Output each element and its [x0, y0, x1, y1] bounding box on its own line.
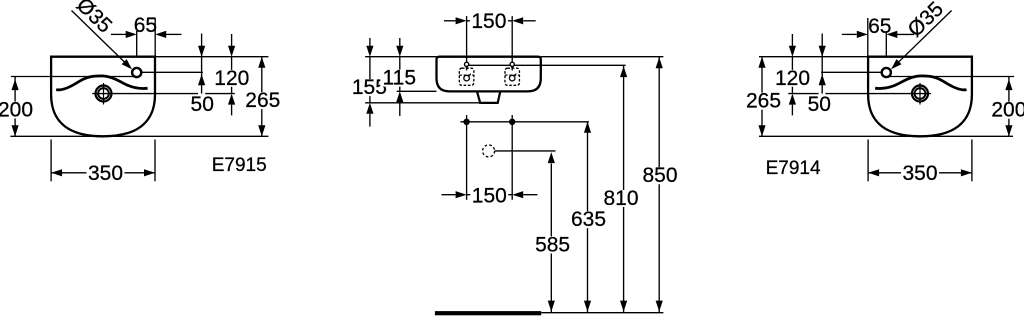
dashed fixing box left [459, 68, 474, 85]
tap hole circle (E7914) [882, 68, 891, 77]
svg-text:350: 350 [902, 162, 937, 185]
tap hole reference line (right drawing) [821, 71, 886, 73]
dimension 50 (E7914) [808, 34, 831, 116]
drain inner circle (E7914) [915, 88, 926, 99]
bottle trap outline [477, 91, 500, 103]
drain reference line left part (E7914) [788, 93, 818, 95]
dimension 850 [641, 57, 679, 313]
drain outer circle (E7914) [912, 86, 928, 102]
fixing keyhole circle left [465, 62, 469, 66]
dimension 65 (E7914) [842, 15, 914, 57]
dimension 265 (E7915) [244, 57, 282, 137]
dimension 120 (E7915) [213, 34, 251, 115]
svg-text:E7915: E7915 [212, 155, 267, 176]
model label E7915 [212, 155, 267, 176]
svg-text:50: 50 [191, 93, 214, 116]
svg-text:200: 200 [0, 99, 33, 122]
arrowhead into right fixing box [510, 63, 515, 70]
leader line for diameter 35 (E7914) [891, 11, 952, 70]
leader line for diameter 35 (E7915) [72, 11, 133, 70]
svg-text:120: 120 [214, 67, 249, 90]
fixing-hole reference line to 810 [467, 64, 626, 66]
dimension 350 (E7914) [868, 140, 972, 185]
dashed fixing box right [505, 68, 520, 85]
label diameter 35 (E7914) [904, 0, 949, 42]
tap hole reference line (left drawing) [137, 71, 203, 73]
dimension 150 bottom (fixing dots) [442, 185, 538, 208]
svg-text:50: 50 [808, 93, 831, 116]
label diameter 35 (E7915) [72, 0, 117, 38]
dimension 635 [570, 122, 608, 312]
drain crosshair vertical (E7915) [103, 83, 105, 105]
dimension 200 (E7914) [990, 77, 1024, 137]
dimension 115 (front view) [380, 38, 418, 116]
tap hole circle (E7915) [132, 68, 141, 77]
outlet dashed circle [483, 145, 495, 157]
floor line thin [541, 312, 663, 314]
fixing dots reference line to 635 [460, 121, 589, 123]
fixing keyhole circle right [510, 62, 514, 66]
dimension 120 (E7914) [774, 34, 812, 115]
svg-text:265: 265 [746, 90, 781, 113]
basin E7915 inner rim wave [56, 76, 147, 90]
svg-text:150: 150 [472, 185, 507, 208]
top edge extension line (right drawing) [759, 56, 868, 58]
dimension 350 (E7915) [51, 140, 155, 185]
trap bottom reference line (155) [365, 102, 480, 104]
bottom extent reference line (left drawing) [10, 135, 268, 137]
svg-text:200: 200 [991, 99, 1024, 122]
svg-text:265: 265 [245, 89, 280, 112]
dimension 150 top (fixing holes) [444, 10, 536, 70]
left fixing dot [463, 119, 469, 125]
svg-text:65: 65 [868, 15, 891, 38]
washbasin E7915 top-view outline [51, 57, 155, 137]
dimension 585 [534, 152, 572, 312]
top-right reference line to 850 [541, 56, 664, 58]
basin E7914 inner rim wave [875, 76, 966, 90]
svg-text:810: 810 [603, 187, 638, 210]
drain outer circle (E7915) [96, 86, 112, 102]
dimension 50 (E7915) [191, 34, 214, 116]
drain reference line left part (E7915) [92, 93, 198, 95]
washbasin front-view outline [437, 57, 541, 92]
drain reference line right part (E7915) [205, 93, 235, 95]
svg-text:850: 850 [642, 164, 677, 187]
floor line thick [435, 311, 541, 315]
top edge extension line (left drawing) [155, 56, 268, 58]
basin bottom reference line (115) [397, 90, 437, 92]
svg-text:150: 150 [471, 10, 506, 33]
right fixing dot [509, 119, 515, 125]
left fixing dot extension line [466, 115, 468, 200]
svg-text:350: 350 [88, 162, 123, 185]
dimension 155 (front view) [350, 38, 388, 127]
drain inner circle (E7915) [98, 88, 109, 99]
svg-text:120: 120 [775, 67, 810, 90]
svg-text:115: 115 [383, 67, 416, 90]
bottom extent reference line (right drawing) [759, 135, 1013, 137]
drain crosshair vertical (E7914) [919, 83, 921, 105]
dimension 265 (E7914) [745, 57, 783, 137]
drain reference line right part (E7914) [825, 93, 931, 95]
dimension 200 (E7915) [0, 77, 35, 137]
dimension 810 [602, 65, 640, 312]
right fixing dot extension line [511, 115, 513, 200]
svg-text:585: 585 [535, 234, 570, 257]
svg-text:65: 65 [134, 14, 157, 37]
arrowhead into left fixing box [464, 63, 469, 70]
dimension 65 (E7915) [111, 14, 182, 57]
top reference line (front view) [365, 56, 436, 58]
washbasin E7914 top-view outline [868, 57, 972, 137]
svg-text:E7914: E7914 [766, 158, 821, 179]
outlet reference line to 585 [495, 150, 556, 152]
model label E7914 [766, 158, 821, 179]
rim reference line (right drawing, 200/120 datum) [889, 76, 1015, 78]
svg-text:635: 635 [571, 208, 606, 231]
rim reference line (left drawing, 200/120 datum) [11, 76, 134, 78]
